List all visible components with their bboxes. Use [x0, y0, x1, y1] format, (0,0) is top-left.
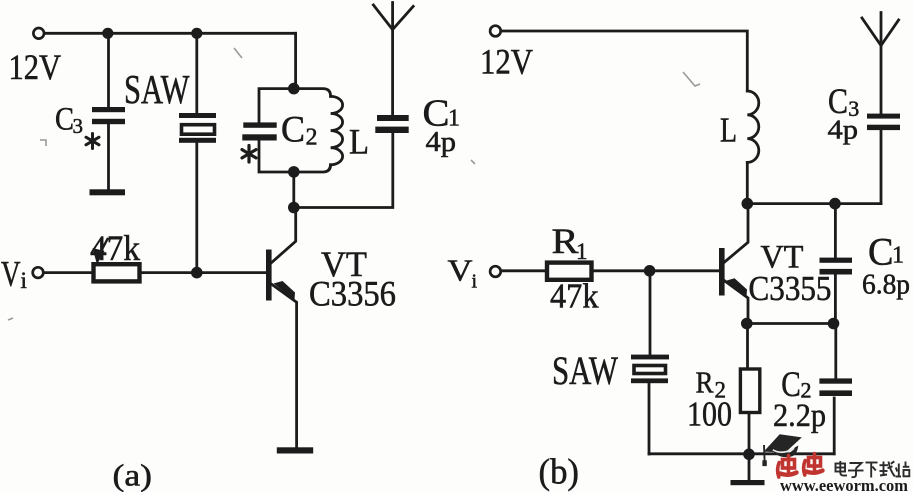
svg-text:C3355: C3355 — [749, 269, 832, 308]
svg-text:i: i — [472, 271, 478, 293]
watermark 电子下载站 (dark CJK strokes) — [836, 461, 910, 478]
svg-text:(a): (a) — [113, 458, 153, 492]
terminal Vi (b) — [490, 266, 501, 277]
node: tank top (a) — [288, 83, 300, 95]
svg-text:2.2p: 2.2p — [773, 398, 826, 434]
svg-text:L: L — [720, 111, 737, 150]
wire: Vi to resistor (a) — [44, 271, 93, 274]
载 — [880, 464, 889, 466]
svg-text:C: C — [281, 110, 305, 151]
antenna mast (b) — [880, 13, 883, 114]
svg-text:(b): (b) — [539, 452, 580, 492]
wire: R2 to bottom rail (b) — [748, 413, 751, 455]
wire: 12V rail (b) — [502, 31, 748, 91]
terminal 12V (b) — [490, 26, 501, 37]
wire: junction down to C1 (b) — [834, 204, 837, 258]
tassel — [763, 445, 766, 461]
bottom rail wire (b) — [649, 452, 834, 455]
ground bar (b) — [731, 480, 765, 485]
resistor R1 (b) — [547, 263, 592, 280]
antenna mast (a) — [391, 3, 394, 116]
wire: Vi to R1 (b) — [502, 269, 547, 272]
svg-text:12V: 12V — [480, 42, 533, 82]
resistor R2 (b) — [740, 369, 759, 413]
wire: collector node to C1 branch (a) — [294, 133, 393, 207]
ground bar below C3 (a) — [90, 189, 126, 195]
wire: C1 node down to C2 (b) — [834, 324, 837, 379]
capacitor C2 (b) — [819, 378, 852, 383]
capacitor C3 (a) — [92, 107, 125, 112]
resistor 47k (a) — [94, 264, 140, 281]
wire: rail to SAW resonator (a) — [195, 38, 198, 113]
inductor L coil (b) — [747, 91, 759, 162]
svg-text:L: L — [349, 122, 369, 162]
svg-text:V: V — [1, 254, 21, 294]
node: rail/C3 junction (a) — [102, 28, 113, 39]
transistor VT base bar (a) — [266, 250, 272, 301]
capacitor C2 (a) — [243, 122, 276, 127]
terminal 12V (a) — [33, 28, 44, 39]
transistor VT emitter (a) — [272, 284, 297, 447]
wire: C3 to end bar (a) — [107, 124, 110, 189]
svg-text:i: i — [21, 268, 27, 293]
svg-text:R: R — [552, 221, 579, 261]
terminal Vi (a) — [33, 267, 44, 278]
transistor VT emitter arrow (b) — [726, 278, 747, 296]
node: emitter junction (b) — [741, 318, 753, 330]
wire: rail corner down to tank (a) — [294, 33, 297, 88]
svg-text:V: V — [448, 253, 474, 288]
scan artifacts — [8, 48, 700, 320]
svg-text:SAW: SAW — [124, 66, 190, 112]
watermark 虫虫 (red bug chars) — [778, 454, 823, 478]
node: C1 bottom junction (b) — [828, 318, 840, 330]
wire: C1 to emitter rail (b) — [834, 275, 837, 324]
capacitor C3 (b) — [867, 114, 900, 119]
node: L/collector junction (b) — [742, 198, 754, 210]
tank top wire (a) — [259, 89, 331, 123]
wire: L to collector node (b) — [746, 162, 749, 203]
capacitor C1 (b) — [820, 258, 853, 263]
inductor L coil (a) — [331, 96, 343, 164]
wire: emitter rail (b) — [747, 322, 834, 325]
node: ground junction (b) — [743, 449, 755, 461]
svg-text:1: 1 — [576, 239, 588, 264]
wire: C2 to bottom rail (b) — [833, 398, 836, 454]
svg-text:SAW: SAW — [552, 348, 618, 393]
svg-text:C: C — [868, 231, 894, 274]
svg-text:C3356: C3356 — [309, 274, 396, 314]
wire: C3 to collector rail (b) — [880, 130, 883, 204]
asterisk mark for C2 (a) — [242, 146, 256, 163]
svg-text:2: 2 — [306, 125, 318, 151]
svg-text:3: 3 — [73, 114, 84, 138]
wire: resistor to base (a) — [140, 271, 267, 274]
node: SAW/base junction (a) — [191, 267, 203, 279]
antenna arms (b) — [862, 18, 899, 46]
svg-text:www.eeworm.com: www.eeworm.com — [780, 476, 908, 492]
SAW resonator (a) — [179, 113, 216, 118]
svg-text:1: 1 — [892, 243, 904, 269]
下 — [866, 462, 878, 464]
站 — [898, 464, 900, 477]
transistor VT base bar (b) — [719, 248, 725, 296]
wire: tank bottom to collector node (a) — [292, 172, 295, 208]
SAW resonator (b) — [631, 355, 669, 360]
node: collector/C1 junction (a) — [288, 202, 300, 214]
wire: collector node to antenna (b) — [747, 202, 881, 205]
watermark logo cap — [762, 434, 801, 466]
svg-text:4p: 4p — [828, 115, 859, 145]
transistor VT collector (a) — [272, 208, 296, 263]
wire: SAW to base node (a) — [195, 143, 198, 273]
asterisk mark for C3 (a) — [86, 134, 99, 149]
tank bottom wire (a) — [259, 141, 331, 172]
ground stub (b) — [748, 454, 751, 480]
node: rail/SAW junction (a) — [191, 28, 202, 39]
子 — [850, 463, 862, 468]
transistor VT emitter arrow (a) — [274, 281, 296, 300]
wire: SAW to bottom rail (b) — [648, 383, 651, 454]
transistor VT collector (b) — [725, 209, 748, 262]
ground bar (a) — [277, 447, 313, 453]
transistor VT emitter (b) — [725, 281, 748, 318]
svg-text:6.8p: 6.8p — [862, 269, 910, 301]
node: C1 top junction (b) — [829, 198, 841, 210]
arrow artifact on 47k (a) — [93, 248, 105, 265]
svg-text:47k: 47k — [550, 277, 599, 316]
svg-text:4p: 4p — [426, 127, 457, 158]
wire: R1 to base (b) — [592, 269, 720, 272]
antenna arms (a) — [373, 5, 413, 30]
svg-text:12V: 12V — [9, 47, 62, 87]
wire: rail to C3 (a) — [107, 38, 110, 107]
capacitor C1 (a) — [377, 115, 409, 121]
电 — [836, 464, 846, 472]
node: base/SAW junction (b) — [644, 265, 656, 277]
wire: junction down to SAW (b) — [649, 271, 652, 355]
svg-text:100: 100 — [687, 395, 732, 434]
wire: emitter node to R2 (b) — [746, 324, 749, 370]
svg-text:C: C — [55, 102, 74, 138]
wire: 12V rail (a) — [45, 32, 296, 35]
node: tank bottom (a) — [288, 166, 300, 178]
